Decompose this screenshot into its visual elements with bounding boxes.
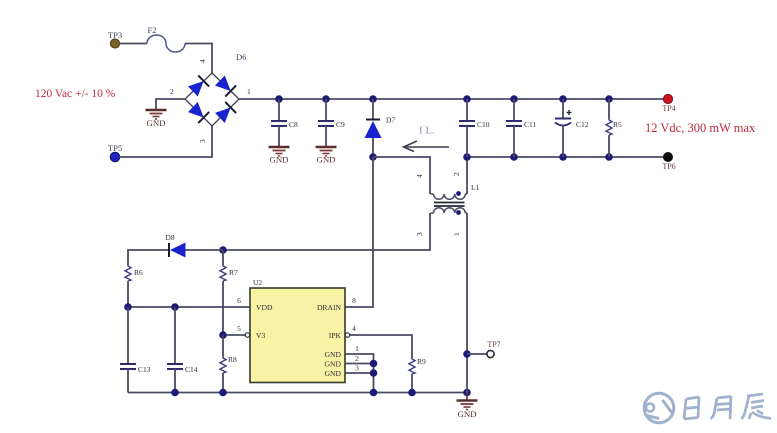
bridge diode top-right — [214, 75, 236, 97]
ground at bottom — [466, 393, 468, 400]
svg-text:TP5: TP5 — [108, 143, 122, 153]
wire IPK to R9 — [350, 335, 412, 358]
svg-text:12 Vdc, 300 mW max: 12 Vdc, 300 mW max — [645, 121, 756, 135]
wire GND pin1 — [345, 354, 374, 393]
diode D7 — [365, 99, 396, 157]
svg-text:C13: C13 — [138, 365, 151, 374]
resistor R7 — [220, 250, 238, 335]
svg-text:U2: U2 — [253, 278, 262, 287]
node R5 top — [605, 95, 613, 103]
ground under C9 — [316, 145, 337, 156]
watermark char ri — [684, 397, 699, 419]
wire drain vertical — [345, 157, 373, 307]
bridge rectifier D6 — [170, 52, 251, 143]
bridge diode bottom-left — [187, 101, 209, 123]
svg-text:VDD: VDD — [256, 303, 273, 312]
diode D8 — [165, 233, 185, 258]
wire TP3 to fuse — [119, 43, 147, 45]
resistor R8 — [220, 335, 237, 393]
svg-text:4: 4 — [415, 174, 424, 178]
svg-text:DRAIN: DRAIN — [317, 303, 342, 312]
fuse F2 — [147, 25, 185, 52]
svg-text:R5: R5 — [613, 120, 622, 129]
node drain top — [369, 153, 377, 161]
svg-text:GND: GND — [325, 350, 342, 359]
node R9 bottom — [408, 389, 416, 397]
svg-text:L1: L1 — [471, 183, 480, 192]
capacitor C14 — [167, 307, 198, 393]
node C9 top — [322, 95, 330, 103]
capacitor C12 polarized — [555, 99, 589, 157]
svg-text:C14: C14 — [185, 365, 198, 374]
node TP7 — [463, 350, 471, 358]
primary polarity dot — [456, 191, 461, 196]
ground under C8 — [269, 145, 290, 156]
node C11 top — [510, 95, 518, 103]
wire VDD line — [128, 306, 250, 308]
resistor R9 — [409, 357, 426, 393]
svg-text:I L.: I L. — [419, 125, 435, 137]
node gnd junction — [463, 389, 471, 397]
svg-text:C12: C12 — [576, 120, 589, 129]
bridge diode bottom-right — [214, 102, 236, 124]
svg-text:R7: R7 — [229, 268, 238, 277]
svg-text:4: 4 — [352, 324, 356, 333]
node C10 top — [463, 95, 471, 103]
capacitor C8 — [271, 99, 298, 146]
svg-text:1: 1 — [247, 87, 251, 96]
node C10 bottom — [463, 153, 471, 161]
wire lower bus — [467, 156, 664, 158]
svg-text:IPK: IPK — [329, 331, 342, 340]
secondary winding — [434, 208, 466, 213]
wire transformer pin1 down — [466, 213, 468, 393]
wire drain node to transformer pin4 — [373, 157, 430, 194]
wire fuse to bridge top — [185, 44, 212, 74]
IC U2 — [250, 278, 345, 383]
node R7 top — [219, 246, 227, 254]
node R8 bottom — [219, 389, 227, 397]
svg-text:2: 2 — [355, 354, 359, 363]
node VDD left rail — [124, 303, 132, 311]
node GND pin2 — [370, 360, 378, 368]
svg-text:GND: GND — [316, 155, 335, 165]
svg-text:2: 2 — [170, 87, 174, 96]
node C14 bottom — [171, 389, 179, 397]
node C12 bottom — [559, 153, 567, 161]
node C14 top — [171, 303, 179, 311]
svg-text:R6: R6 — [134, 268, 143, 277]
svg-text:GND: GND — [325, 360, 342, 369]
svg-text:C11: C11 — [524, 120, 536, 129]
svg-text:5: 5 — [237, 324, 241, 333]
svg-text:C8: C8 — [289, 120, 298, 129]
svg-text:8: 8 — [352, 296, 356, 305]
svg-text:D8: D8 — [165, 233, 174, 242]
svg-text:D7: D7 — [386, 116, 395, 125]
watermark logo — [644, 393, 674, 423]
node GND pin3 — [370, 369, 378, 377]
resistor R5 — [606, 99, 622, 157]
wire D8 cathode to left rail — [128, 250, 168, 265]
node U2 gnd bottom — [370, 389, 378, 397]
secondary polarity dot — [456, 210, 461, 215]
IPK pin bubble — [345, 333, 349, 337]
wire D8 anode — [186, 249, 224, 251]
svg-text:3: 3 — [415, 232, 424, 236]
svg-text:3: 3 — [355, 364, 359, 373]
svg-text:2: 2 — [452, 172, 461, 176]
bridge diode top-left — [187, 75, 209, 97]
svg-text:3: 3 — [198, 139, 207, 143]
capacitor C9 — [318, 99, 345, 146]
primary winding — [434, 194, 466, 199]
test point TP7 — [467, 340, 501, 358]
test point TP5 — [108, 143, 122, 162]
svg-text:GND: GND — [146, 118, 165, 128]
svg-text:4: 4 — [198, 59, 207, 63]
core — [434, 202, 465, 204]
node C8 top — [275, 95, 283, 103]
node R5 bottom — [605, 153, 613, 161]
svg-text:C9: C9 — [336, 120, 345, 129]
wire transformer pin3 down and left — [223, 213, 430, 250]
wire GND pin2 — [345, 363, 374, 365]
wire transformer pin2 up to bus — [466, 157, 468, 194]
test point TP3 — [108, 30, 122, 48]
wire top bus — [239, 98, 664, 100]
wire bottom bus — [128, 392, 467, 394]
svg-text:TP7: TP7 — [487, 340, 500, 349]
watermark char yue — [711, 397, 732, 420]
svg-text:R8: R8 — [228, 355, 237, 364]
svg-text:1: 1 — [452, 232, 461, 236]
node C11 bottom — [510, 153, 518, 161]
svg-text:F2: F2 — [148, 25, 157, 35]
wire bridge pin2 to ground — [156, 99, 185, 109]
node C12 top — [559, 95, 567, 103]
ground at bridge pin2 — [146, 108, 167, 119]
svg-text:6: 6 — [237, 296, 241, 305]
node V3 — [219, 331, 227, 339]
wire V3 pin — [223, 334, 250, 336]
svg-text:D6: D6 — [236, 52, 246, 62]
svg-text:120 Vac +/- 10 %: 120 Vac +/- 10 % — [35, 88, 116, 100]
current arrow — [404, 141, 450, 152]
resistor R6 — [125, 265, 143, 307]
svg-text:GND: GND — [457, 409, 476, 419]
test point TP6 — [662, 152, 675, 171]
test point TP4 — [662, 94, 675, 113]
svg-text:1: 1 — [355, 344, 359, 353]
wire TP5 to bridge bottom — [119, 126, 212, 157]
svg-text:GND: GND — [325, 369, 342, 378]
capacitor C13 — [120, 307, 151, 393]
svg-text:TP6: TP6 — [662, 162, 675, 171]
svg-text:R9: R9 — [417, 357, 426, 366]
svg-text:TP4: TP4 — [662, 104, 675, 113]
wire GND pin3 — [345, 372, 374, 374]
transformer L1 — [415, 172, 480, 236]
node D7 top — [369, 95, 377, 103]
capacitor C10 — [459, 99, 490, 157]
capacitor C11 — [506, 99, 536, 157]
svg-text:TP3: TP3 — [108, 30, 122, 40]
V3 pin bubble — [245, 333, 249, 337]
watermark char chen — [742, 394, 772, 419]
svg-text:C10: C10 — [477, 120, 490, 129]
svg-text:GND: GND — [269, 155, 288, 165]
svg-text:V3: V3 — [256, 331, 265, 340]
